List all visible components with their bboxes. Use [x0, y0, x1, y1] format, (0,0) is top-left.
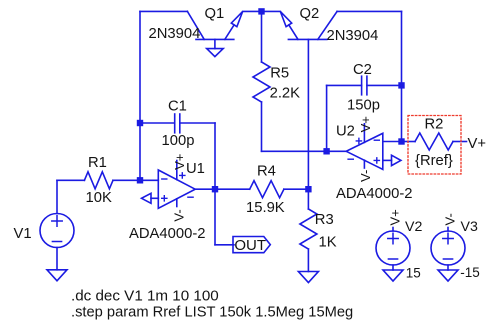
svg-text:15.9K: 15.9K: [246, 200, 285, 216]
wire: [327, 84, 362, 86]
transistor Q2: [280, 11, 337, 39]
node R1-U1: [137, 177, 143, 183]
svg-text:V+: V+: [387, 209, 402, 225]
svg-text:ADA4000-2: ADA4000-2: [129, 226, 206, 242]
net flag OUT: [233, 237, 270, 254]
svg-text:R5: R5: [270, 66, 289, 82]
wire: [56, 180, 58, 213]
svg-text:100p: 100p: [162, 133, 195, 149]
svg-text:R4: R4: [257, 164, 276, 180]
svg-text:U2: U2: [336, 124, 355, 140]
svg-text:150p: 150p: [347, 98, 380, 114]
wire: [447, 265, 449, 270]
svg-text:C1: C1: [168, 99, 187, 115]
resistor R5: [253, 11, 270, 151]
wire: [214, 189, 216, 245]
resistor R1: [57, 172, 140, 189]
resistor R4: [215, 181, 308, 198]
svg-text:Q2: Q2: [300, 6, 320, 22]
voltage source V2: [376, 231, 410, 265]
ground V1: [47, 270, 67, 281]
op-amp U2: [346, 124, 383, 170]
ground U1 noninverting: [142, 193, 159, 203]
wire: [401, 11, 403, 141]
wire: [140, 10, 187, 12]
svg-text:R1: R1: [88, 155, 107, 171]
node C1 left: [137, 120, 143, 126]
wire: [337, 10, 401, 12]
wire: [139, 11, 141, 180]
ground Q1 base: [207, 49, 224, 57]
wire: [195, 188, 215, 190]
ground V2: [383, 270, 403, 281]
node U1 output: [212, 186, 218, 192]
node top-center: [258, 8, 264, 14]
svg-text:V2: V2: [405, 219, 422, 235]
svg-text:.dc dec V1 1m 10 100: .dc dec V1 1m 10 100: [71, 288, 219, 305]
wire: [180, 122, 215, 124]
voltage source V3: [431, 231, 465, 265]
capacitor C1: [175, 114, 180, 133]
wire: [56, 248, 58, 270]
wire: [262, 10, 281, 12]
svg-text:2N3904: 2N3904: [149, 26, 201, 42]
svg-text:V+: V+: [172, 154, 187, 170]
wire: [215, 244, 234, 246]
wire feedback U1: [214, 123, 216, 189]
resistor R2: [402, 133, 467, 150]
svg-text:ADA4000-2: ADA4000-2: [336, 186, 413, 202]
wire R5 to U2 out: [262, 150, 347, 152]
svg-text:V-: V-: [172, 209, 187, 221]
ground U2 noninverting: [383, 155, 401, 165]
highlight box R2: [408, 116, 461, 175]
svg-text:C2: C2: [353, 62, 372, 78]
node C2-rail: [398, 82, 404, 88]
wire: [140, 179, 158, 181]
svg-text:10K: 10K: [86, 190, 112, 206]
svg-text:V1: V1: [14, 226, 32, 242]
transistor Q1: [187, 11, 242, 48]
wire: [140, 122, 175, 124]
svg-text:{Rref}: {Rref}: [415, 153, 453, 169]
svg-text:R2: R2: [425, 117, 444, 133]
node U2 inverting: [398, 138, 404, 144]
svg-text:15: 15: [406, 265, 421, 280]
wire: [392, 228, 394, 232]
wire: [326, 85, 328, 151]
voltage source V1: [40, 214, 74, 248]
svg-text:R3: R3: [315, 212, 334, 228]
node R4-R3: [305, 186, 311, 192]
svg-text:OUT: OUT: [234, 237, 266, 254]
ground R3: [298, 272, 318, 283]
wire Q2 base: [307, 39, 309, 189]
node U2 out-C2: [323, 148, 329, 154]
wire: [447, 228, 449, 232]
svg-text:V-: V-: [442, 213, 457, 225]
svg-text:2.2K: 2.2K: [270, 85, 301, 101]
capacitor C2: [362, 76, 367, 95]
svg-text:V3: V3: [461, 219, 478, 235]
op-amp U1: [158, 161, 195, 209]
svg-text:-15: -15: [460, 265, 480, 280]
svg-text:1K: 1K: [319, 234, 337, 250]
wire: [383, 141, 402, 143]
svg-text:V+: V+: [358, 116, 373, 132]
svg-text:V+: V+: [468, 136, 487, 152]
wire: [392, 265, 394, 270]
svg-text:.step param Rref LIST 150k 1.5: .step param Rref LIST 150k 1.5Meg 15Meg: [71, 305, 353, 321]
svg-text:2N3904: 2N3904: [327, 28, 379, 44]
ground V3: [438, 270, 458, 281]
svg-text:Q1: Q1: [205, 6, 225, 22]
wire: [243, 10, 262, 12]
svg-text:V-: V-: [358, 170, 373, 182]
svg-text:U1: U1: [186, 161, 205, 177]
resistor R3: [300, 189, 317, 271]
wire: [367, 84, 402, 86]
